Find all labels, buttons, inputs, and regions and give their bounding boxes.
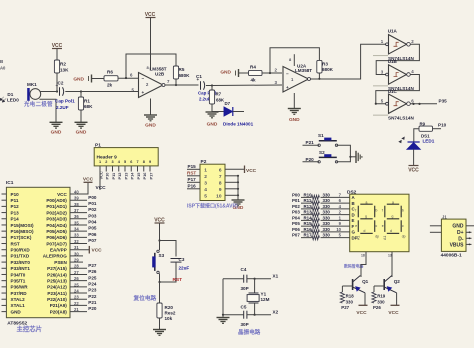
svg-text:P25(A13): P25(A13) (47, 278, 67, 283)
wire branch to C3 (160, 241, 177, 257)
wire C4 left (223, 278, 244, 280)
svg-text:LED0: LED0 (7, 98, 19, 103)
svg-text:A1: A1 (383, 236, 387, 240)
wire MCU PSEN stub (70, 261, 83, 263)
svg-text:680K: 680K (322, 67, 334, 72)
wire P2 pin6 to VCC port (225, 168, 244, 170)
power VCC (Q2) (391, 304, 400, 306)
svg-text:4: 4 (204, 187, 207, 193)
wire MCU pin40 to VCC (70, 183, 88, 194)
svg-text:d: d (390, 229, 392, 233)
svg-text:VCC: VCC (246, 168, 257, 174)
wire X2 stub (255, 314, 271, 316)
svg-text:P10: P10 (438, 122, 447, 127)
svg-text:12M: 12M (261, 297, 270, 302)
ground port at S1 S2 (350, 156, 355, 158)
svg-text:g: g (365, 214, 367, 218)
svg-text:U1C: U1C (388, 89, 398, 94)
svg-text:330: 330 (323, 233, 331, 238)
wire MCU P07 (70, 243, 87, 245)
svg-text:D: D (352, 212, 355, 217)
svg-text:数码管电路: 数码管电路 (343, 263, 364, 268)
svg-text:VCC: VCC (96, 185, 107, 191)
svg-text:IC1: IC1 (6, 180, 14, 186)
svg-text:b: b (376, 209, 378, 213)
svg-text:680K: 680K (179, 73, 191, 78)
svg-text:D+: D+ (457, 230, 464, 236)
svg-text:330: 330 (346, 299, 354, 304)
svg-text:30P: 30P (241, 286, 249, 291)
svg-text:C4: C4 (241, 267, 247, 272)
wire MCU P27 (70, 267, 87, 269)
svg-text:68K: 68K (84, 104, 93, 109)
svg-text:B: B (352, 201, 355, 206)
power port VCC at P2 (244, 166, 246, 174)
svg-text:a: a (392, 200, 394, 204)
svg-text:R20: R20 (165, 305, 174, 310)
svg-text:P05: P05 (292, 221, 300, 226)
svg-text:Diode 1N4001: Diode 1N4001 (223, 122, 254, 127)
svg-text:+: + (142, 90, 145, 95)
svg-text:R7: R7 (216, 92, 222, 97)
wire MCU P03 (70, 218, 87, 220)
svg-text:P10: P10 (11, 192, 20, 197)
svg-text:4k: 4k (251, 78, 257, 83)
svg-text:2: 2 (105, 160, 107, 164)
svg-text:5: 5 (204, 193, 207, 199)
wire node to U2A pin3 (212, 84, 282, 87)
svg-text:MK1: MK1 (27, 82, 37, 87)
svg-text:P30/RXD: P30/RXD (11, 248, 31, 253)
svg-text:P34/T0: P34/T0 (11, 272, 26, 277)
wire GND port to R6 (92, 78, 104, 80)
svg-text:R1: R1 (84, 99, 90, 104)
svg-text:P22: P22 (88, 294, 97, 299)
wire J1 left 2 (430, 231, 442, 233)
svg-text:P17: P17 (188, 177, 197, 182)
svg-text:G: G (352, 230, 356, 235)
wire U1A out to U1B in (376, 44, 419, 74)
ground below U2A (288, 108, 301, 110)
inverter U1A (389, 35, 407, 54)
resistor R19 (373, 286, 375, 292)
svg-text:P15: P15 (136, 172, 141, 180)
svg-text:主控芯片: 主控芯片 (17, 324, 43, 333)
transistor Q2 (383, 279, 385, 290)
resistor R5 (173, 66, 178, 79)
svg-text:P26: P26 (373, 305, 381, 310)
wire MCU P00 (70, 199, 87, 201)
wire MCU P02 (70, 212, 87, 214)
wire GND port to R4 (239, 72, 249, 74)
svg-text:10: 10 (336, 227, 341, 232)
svg-text:P10: P10 (105, 173, 110, 180)
svg-text:F: F (352, 224, 355, 229)
svg-text:10: 10 (216, 193, 222, 199)
wire VCC to R2 (56, 49, 58, 61)
svg-text:P27(A15): P27(A15) (47, 266, 67, 271)
svg-text:P15: P15 (188, 164, 197, 169)
wire R9 to P10 (433, 128, 442, 130)
svg-text:LED1: LED1 (423, 139, 435, 144)
svg-text:c: c (376, 224, 378, 228)
svg-text:VBUS: VBUS (450, 243, 465, 249)
svg-text:XTAL1: XTAL1 (11, 303, 26, 308)
svg-text:VCC: VCC (57, 192, 67, 197)
svg-text:R2: R2 (60, 62, 66, 67)
svg-text:9: 9 (149, 160, 151, 164)
svg-text:P11: P11 (11, 198, 19, 203)
svg-text:P06: P06 (88, 232, 97, 237)
wire P21 to S1 (303, 144, 320, 146)
svg-text:B: B (0, 59, 3, 64)
svg-text:R4: R4 (250, 65, 256, 70)
svg-text:b: b (402, 209, 404, 213)
wire MCU P01 (70, 205, 87, 207)
wire MCU P05 (70, 230, 87, 232)
wire LED1 to VCC (413, 149, 415, 165)
wire MCU P23 (70, 292, 87, 294)
wire node to U2B pin5 (81, 91, 139, 93)
ground below R1 (75, 121, 88, 123)
svg-text:P21: P21 (306, 140, 315, 145)
resistor R2 (54, 60, 59, 73)
svg-text:R15: R15 (304, 221, 313, 226)
svg-text:6: 6 (219, 167, 222, 173)
svg-text:1: 1 (204, 167, 207, 173)
wire to diode D7 (212, 111, 224, 113)
svg-text:P20: P20 (88, 306, 97, 311)
svg-text:S3: S3 (159, 253, 165, 258)
svg-text:P02(AD2): P02(AD2) (46, 210, 67, 215)
svg-text:P00: P00 (88, 195, 97, 200)
svg-text:P14: P14 (130, 172, 135, 180)
svg-text:P01: P01 (88, 201, 97, 206)
ground below P2 (232, 199, 245, 201)
wire MCU P22 (70, 298, 87, 300)
svg-text:ISP下载接口(51&AVR): ISP下载接口(51&AVR) (187, 203, 238, 210)
svg-text:330: 330 (323, 210, 331, 215)
svg-text:P03(AD3): P03(AD3) (46, 217, 67, 222)
svg-text:10k: 10k (165, 316, 173, 321)
svg-text:330: 330 (323, 227, 331, 232)
resistor R20 (157, 303, 162, 318)
svg-text:GND: GND (207, 122, 218, 128)
resistor R3 (317, 60, 322, 73)
svg-text:330: 330 (323, 221, 331, 226)
svg-text:30P: 30P (241, 322, 249, 327)
svg-text:U2B: U2B (155, 72, 165, 77)
svg-text:R14: R14 (304, 215, 313, 220)
svg-text:330: 330 (323, 204, 331, 209)
power VCC above MCU (84, 181, 93, 183)
svg-text:U1B: U1B (388, 59, 398, 64)
svg-text:e: e (382, 224, 384, 228)
svg-text:P00: P00 (292, 192, 300, 197)
wire R9 to LED1 (414, 129, 419, 142)
svg-text:P31/TXD: P31/TXD (11, 254, 30, 259)
svg-text:a: a (366, 200, 368, 204)
svg-text:P04(AD4): P04(AD4) (46, 223, 67, 228)
svg-text:c: c (402, 224, 404, 228)
svg-text:P21: P21 (88, 300, 97, 305)
wire C4 right (247, 278, 255, 280)
svg-text:P05(AD5): P05(AD5) (46, 229, 67, 234)
7-segment digit 2 of DS2 (387, 203, 399, 205)
wire Q2 base to R19 (374, 285, 384, 287)
wire P20 to S2 (303, 161, 320, 163)
svg-text:P15(MOSI): P15(MOSI) (11, 223, 34, 228)
svg-text:R6: R6 (107, 70, 113, 75)
svg-text:ALE/PROG: ALE/PROG (43, 254, 67, 259)
svg-text:P24(A12): P24(A12) (47, 285, 67, 290)
ground below R7 (206, 111, 219, 113)
svg-text:VCC: VCC (408, 168, 419, 174)
wire DS2 digit1 common to Q1 (361, 252, 366, 277)
wire P2 pin1 (187, 168, 200, 170)
wire C2 to R1 node (65, 91, 81, 93)
svg-text:P26(A14): P26(A14) (47, 272, 67, 277)
svg-text:D7: D7 (225, 101, 231, 106)
svg-text:P07: P07 (292, 233, 300, 238)
wire S3 to RST node (159, 274, 161, 283)
svg-text:R11: R11 (304, 198, 312, 203)
ground below MK1 (50, 121, 63, 123)
svg-text:VCC: VCC (83, 177, 94, 183)
svg-text:GND: GND (289, 117, 300, 123)
svg-text:P25: P25 (88, 275, 97, 280)
svg-text:GND: GND (220, 70, 231, 76)
svg-text:−: − (142, 76, 145, 81)
svg-text:P04: P04 (292, 215, 300, 220)
wire MK1 top terminal to node (40, 91, 57, 93)
svg-text:P26: P26 (88, 269, 97, 274)
wire C3 down to RST node (160, 262, 177, 282)
pushbutton S1 (318, 144, 320, 146)
svg-text:Q1: Q1 (362, 279, 369, 284)
svg-text:Q2: Q2 (394, 279, 401, 284)
svg-text:C5: C5 (241, 305, 247, 310)
svg-text:2: 2 (204, 174, 207, 180)
wire MK1 lower terminal to ground (40, 99, 57, 122)
wire MCU P24 (70, 286, 87, 288)
svg-text:XTAL2: XTAL2 (11, 297, 26, 302)
svg-text:Res2: Res2 (165, 311, 176, 316)
svg-text:P02: P02 (292, 204, 300, 209)
svg-text:330: 330 (323, 198, 331, 203)
wire MCU EA to VCC port (70, 249, 89, 251)
svg-text:P36/WR: P36/WR (11, 285, 29, 290)
svg-text:R10: R10 (304, 192, 313, 197)
svg-text:P16: P16 (188, 184, 197, 189)
U2B bottom power stub (150, 99, 152, 115)
svg-text:dp: dp (402, 235, 406, 239)
svg-text:P03: P03 (292, 210, 300, 215)
svg-text:P11: P11 (111, 172, 116, 180)
svg-text:GND: GND (145, 123, 156, 129)
svg-text:RST: RST (187, 171, 196, 176)
svg-text:dp: dp (375, 235, 379, 239)
svg-text:P03: P03 (88, 213, 97, 218)
wire to crystal Y1 (254, 279, 256, 293)
wire MCU P26 (70, 273, 87, 275)
wire Q1 base to R18 (342, 285, 352, 287)
svg-text:+: + (286, 85, 289, 90)
pin 8 power stub U2A (293, 54, 295, 66)
wire crystal left rail (222, 279, 224, 315)
svg-text:P13: P13 (11, 210, 20, 215)
svg-text:Y1: Y1 (261, 292, 267, 297)
svg-text:A0: A0 (0, 66, 6, 71)
svg-text:3: 3 (204, 180, 207, 186)
wire U1C out to P35 (410, 103, 437, 105)
svg-text:X2: X2 (273, 310, 279, 315)
svg-text:P06: P06 (292, 227, 300, 232)
wire U2B feedback loop top (126, 54, 176, 78)
wire C1 to R7 node (206, 85, 212, 87)
wire C5 left (223, 314, 244, 316)
wire X1 stub (255, 278, 271, 280)
svg-text:1: 1 (99, 160, 101, 164)
wire node to S3 (159, 241, 161, 251)
svg-text:R3: R3 (322, 62, 328, 67)
svg-text:7: 7 (136, 160, 138, 164)
wire P2 pin2 (187, 175, 200, 177)
wire DS2 digit2 common to Q2 (391, 252, 393, 277)
wire R5 to output junction (175, 79, 177, 85)
wire P1 pin1 to VCC label (99, 172, 101, 191)
svg-text:330: 330 (377, 299, 385, 304)
svg-text:晶振电路: 晶振电路 (238, 328, 261, 336)
svg-text:VCC: VCC (92, 247, 103, 253)
svg-text:C2: C2 (58, 81, 64, 86)
svg-text:P21(A9): P21(A9) (50, 303, 68, 308)
svg-text:VCC: VCC (98, 171, 103, 179)
svg-text:R18: R18 (346, 293, 355, 298)
svg-text:P00(AD0): P00(AD0) (46, 198, 67, 203)
wire U2A feedback loop (270, 48, 319, 73)
svg-text:P35: P35 (439, 99, 448, 104)
ground below crystal rail (217, 317, 230, 319)
op-amp U2B (139, 73, 164, 98)
svg-text:D-: D- (458, 236, 464, 242)
svg-text:GND: GND (51, 130, 62, 136)
wire C5 right (247, 314, 255, 316)
svg-text:9: 9 (219, 187, 222, 193)
svg-text:S2: S2 (319, 150, 325, 155)
svg-text:2k: 2k (107, 83, 113, 88)
svg-text:P17: P17 (148, 173, 153, 180)
wire S2 to port (337, 157, 351, 162)
svg-text:SN74LS14N: SN74LS14N (388, 115, 414, 120)
svg-text:R17: R17 (304, 233, 313, 238)
svg-text:8: 8 (219, 180, 222, 186)
wire VCC to U2B pin8 (150, 18, 152, 71)
svg-text:光电二极管: 光电二极管 (23, 100, 53, 108)
svg-text:3: 3 (111, 160, 113, 164)
svg-text:R5: R5 (179, 67, 185, 72)
inverter U1B (389, 65, 407, 84)
svg-text:U1A: U1A (388, 28, 398, 33)
svg-text:P16: P16 (142, 172, 147, 180)
svg-text:P16(MISO): P16(MISO) (11, 229, 34, 234)
svg-text:RST: RST (11, 241, 20, 246)
svg-text:LM358T: LM358T (295, 68, 312, 73)
svg-text:P07(AD7): P07(AD7) (46, 241, 67, 246)
U2A bottom power stub (293, 93, 295, 108)
svg-text:P05: P05 (88, 226, 97, 231)
svg-text:P23(A11): P23(A11) (47, 291, 67, 296)
svg-text:GND: GND (452, 224, 464, 230)
wire U2B output (165, 84, 176, 86)
svg-text:P17(SCK): P17(SCK) (11, 235, 32, 240)
svg-text:P35/T1: P35/T1 (11, 278, 26, 283)
svg-text:P13: P13 (123, 172, 128, 180)
wire S1 to port (337, 145, 351, 157)
wire R7 to ground node (211, 104, 213, 112)
wire D7 cathode stub (233, 111, 244, 113)
svg-text:P01(AD1): P01(AD1) (46, 204, 67, 209)
resistor R9 (419, 126, 433, 131)
svg-text:A1: A1 (356, 236, 360, 240)
svg-text:R13: R13 (304, 210, 313, 215)
svg-text:P20(A8): P20(A8) (50, 309, 68, 314)
svg-text:g: g (392, 214, 394, 218)
wire U1B out to U1C in (376, 75, 420, 104)
svg-text:R16: R16 (304, 227, 313, 232)
wires P2 pins 7-10 to ground rail (225, 175, 238, 177)
svg-text:S1: S1 (318, 133, 324, 138)
svg-text:VCC: VCC (388, 310, 399, 316)
transistor Q1 (352, 279, 354, 290)
svg-text:13K: 13K (60, 68, 69, 73)
pushbutton S2 (318, 161, 320, 163)
wire R4 to U2A pin2 (262, 72, 282, 74)
wire R2 to signal node (56, 73, 58, 92)
svg-text:C3: C3 (179, 257, 185, 262)
svg-text:f: f (355, 209, 356, 213)
svg-text:P22(A10): P22(A10) (47, 297, 67, 302)
wire rail to ground (222, 314, 224, 316)
svg-text:RST: RST (173, 277, 183, 283)
wire MCU P20 (70, 311, 87, 313)
wire J1 left 1 (430, 225, 442, 227)
svg-text:P23: P23 (88, 288, 97, 293)
svg-text:P02: P02 (88, 207, 97, 212)
wire MCU P21 (70, 304, 87, 306)
svg-text:P12: P12 (11, 204, 20, 209)
svg-text:330: 330 (323, 192, 331, 197)
svg-text:X1: X1 (273, 273, 279, 278)
svg-text:Cap Pol1: Cap Pol1 (55, 99, 75, 104)
svg-text:13: 13 (388, 254, 392, 258)
svg-text:2.2UF: 2.2UF (56, 105, 69, 110)
power VCC (below LED1) (409, 165, 419, 167)
wire VCC down to node (159, 223, 161, 241)
wire R3 to output junction (318, 73, 320, 79)
svg-text:PSEN: PSEN (54, 260, 67, 265)
wire MCU ALE stub (70, 255, 83, 257)
svg-text:VCC: VCC (356, 310, 367, 316)
wire R6 to U2B pin6 (118, 77, 139, 79)
wire R1 to ground (80, 110, 82, 122)
svg-text:P06(AD6): P06(AD6) (46, 235, 67, 240)
pushbutton S3 (157, 250, 159, 252)
svg-text:P07: P07 (88, 238, 97, 243)
svg-text:P27: P27 (341, 305, 349, 310)
header P1 pin stubs (99, 166, 101, 172)
svg-text:EA/VPP: EA/VPP (50, 248, 67, 253)
